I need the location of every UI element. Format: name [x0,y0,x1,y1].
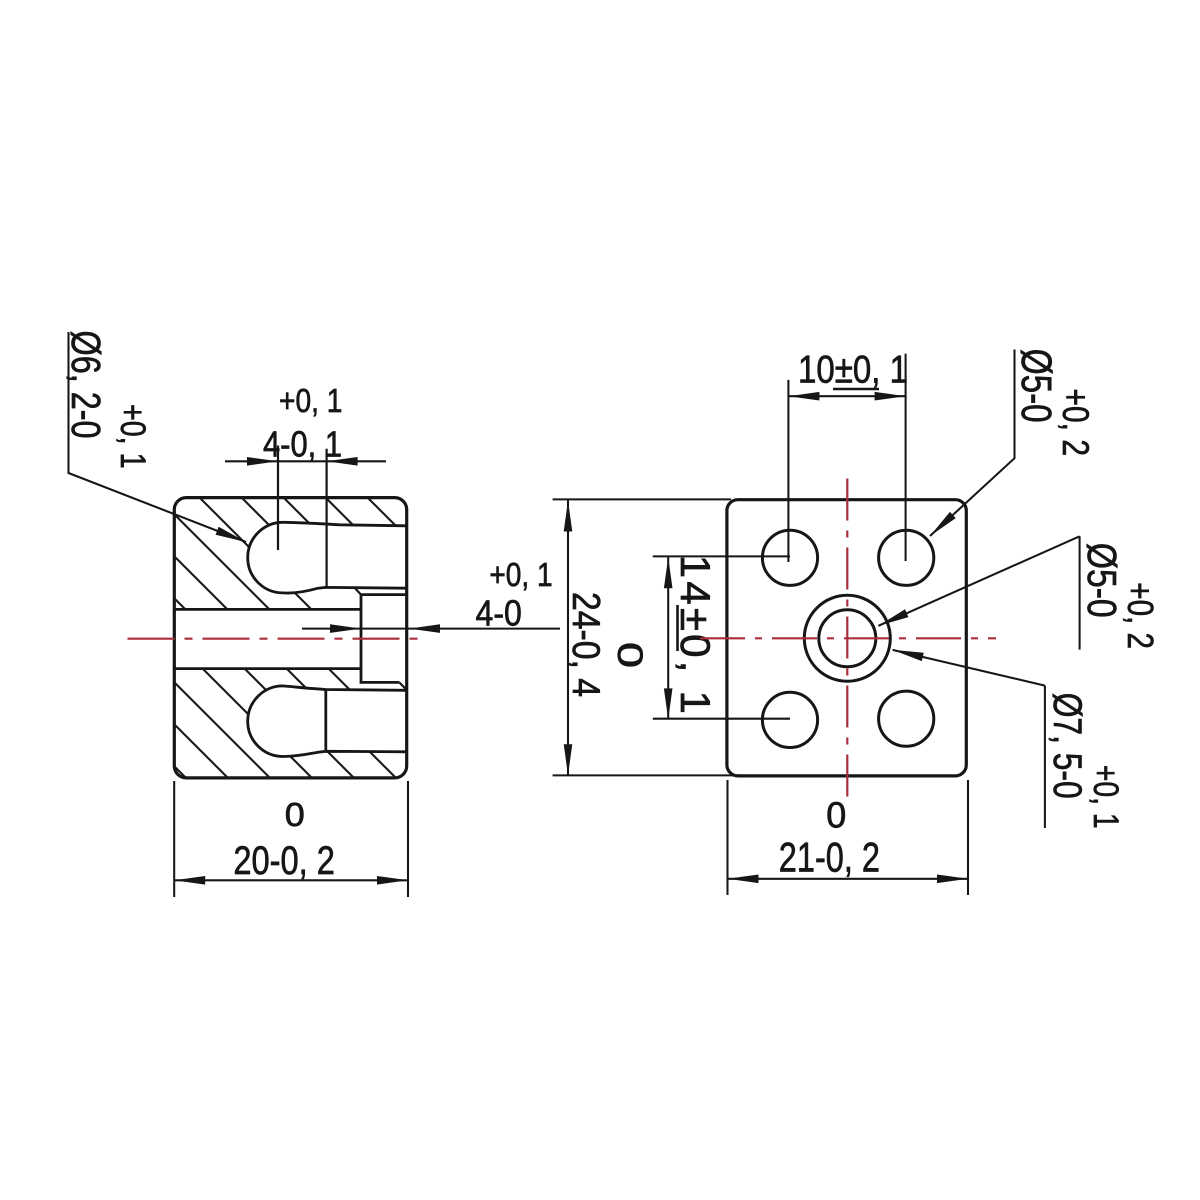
svg-text:0: 0 [610,642,649,668]
svg-text:0: 0 [826,795,846,836]
svg-text:Ø5-0: Ø5-0 [1012,349,1060,423]
svg-text:Ø7, 5-0: Ø7, 5-0 [1045,693,1089,799]
svg-text:21-0, 2: 21-0, 2 [779,833,880,880]
svg-text:Ø5-0: Ø5-0 [1079,543,1125,618]
svg-text:+0, 1: +0, 1 [113,404,152,469]
svg-text:+0, 1: +0, 1 [489,556,552,593]
svg-text:0: 0 [285,796,305,833]
svg-text:24-0, 4: 24-0, 4 [564,592,607,697]
svg-text:+0, 1: +0, 1 [279,382,342,419]
svg-text:10±0, 1: 10±0, 1 [798,349,908,392]
svg-text:+0, 2: +0, 2 [1120,582,1161,649]
svg-text:20-0, 2: 20-0, 2 [233,839,335,883]
svg-text:4-0, 1: 4-0, 1 [263,423,342,464]
svg-text:4-0: 4-0 [476,592,522,633]
svg-text:Ø6, 2-0: Ø6, 2-0 [63,331,109,439]
svg-text:+0, 1: +0, 1 [1086,765,1125,829]
svg-text:+0, 2: +0, 2 [1055,389,1096,457]
